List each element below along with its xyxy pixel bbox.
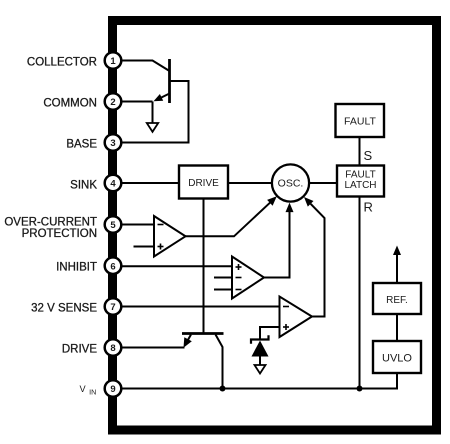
- junction dot FAULT LATCH line on VIN bus: [357, 386, 363, 392]
- pin label VIN: [80, 384, 97, 397]
- svg-text:BASE: BASE: [66, 138, 97, 150]
- stub U2 inverting input 2: [214, 289, 232, 291]
- wire FAULT LATCH R to VIN bus: [359, 197, 361, 389]
- wire U2 output to OSC with arrow: [264, 203, 294, 278]
- block UVLO: [373, 341, 421, 373]
- wire pin 6 to U2 non-inverting input: [122, 265, 232, 267]
- svg-text:REF.: REF.: [386, 295, 408, 306]
- comparator U2 inhibit: [232, 257, 264, 299]
- comparator U3 32V sense: [280, 297, 313, 338]
- svg-text:COLLECTOR: COLLECTOR: [27, 56, 97, 68]
- svg-text:FAULT: FAULT: [345, 170, 375, 181]
- block DRIVE: [179, 166, 228, 199]
- pin 4 (SINK): [105, 175, 122, 192]
- pin 6 (INHIBIT): [105, 257, 122, 274]
- wire FAULT to FAULT LATCH S input: [359, 137, 361, 166]
- oscillator OSC: [272, 164, 309, 201]
- wire U3 non-inverting input to zener D1: [260, 327, 280, 340]
- svg-text:LATCH: LATCH: [344, 180, 376, 191]
- svg-text:PROTECTION: PROTECTION: [22, 228, 97, 240]
- wire pin 8 to Q2 emitter: [122, 347, 185, 349]
- svg-text:SINK: SINK: [70, 179, 97, 191]
- wire U1 output to OSC with arrow: [186, 196, 277, 236]
- wire UVLO to VIN bus: [396, 373, 398, 390]
- svg-text:DRIVE: DRIVE: [188, 178, 219, 189]
- wire pin 4 to DRIVE block: [122, 182, 179, 184]
- svg-text:7: 7: [110, 302, 115, 313]
- block REF: [373, 283, 421, 314]
- pin 1 (COLLECTOR): [105, 52, 122, 69]
- comparator U1 over-current: [154, 216, 186, 257]
- pin 3 (BASE): [105, 134, 122, 151]
- svg-text:DRIVE: DRIVE: [62, 343, 97, 355]
- wire OSC to FAULT LATCH: [310, 182, 337, 184]
- pin 2 (COMMON): [105, 93, 122, 110]
- block FAULT LATCH: [337, 166, 384, 197]
- transistor Q1: [154, 59, 170, 103]
- substrate connection below Q1 emitter: [147, 102, 158, 132]
- stub U1 non-inverting input: [134, 246, 155, 248]
- svg-text:S: S: [364, 148, 373, 163]
- svg-text:IN: IN: [89, 388, 96, 397]
- wire REF to UVLO: [396, 314, 398, 341]
- wire VIN bus from pin 9: [122, 388, 397, 390]
- svg-text:R: R: [364, 199, 373, 214]
- wire pin 2 to Q1 emitter node: [122, 101, 153, 103]
- junction dot Q2 collector on VIN bus: [220, 386, 226, 392]
- svg-text:UVLO: UVLO: [382, 353, 412, 365]
- svg-text:8: 8: [110, 343, 115, 354]
- transistor Q2: [182, 334, 224, 389]
- svg-text:COMMON: COMMON: [43, 97, 97, 109]
- svg-text:2: 2: [110, 97, 115, 108]
- wire DRIVE block to Q2 base: [203, 199, 205, 334]
- svg-text:FAULT: FAULT: [344, 116, 376, 128]
- pin 9 (VIN): [105, 380, 122, 397]
- stub U2 inverting input 1: [214, 277, 232, 279]
- pin 8 (DRIVE): [105, 339, 122, 356]
- svg-text:3: 3: [110, 138, 115, 149]
- svg-text:V: V: [80, 384, 87, 394]
- svg-text:OSC.: OSC.: [278, 178, 304, 190]
- wire DRIVE to OSC: [228, 182, 272, 184]
- zener diode D1: [251, 335, 269, 365]
- svg-text:OVER-CURRENT: OVER-CURRENT: [4, 217, 97, 229]
- svg-text:9: 9: [110, 384, 115, 395]
- pin label OVER-CURRENT PROTECTION: [4, 217, 97, 240]
- wire pin 7 to U3 inverting input: [122, 306, 280, 308]
- block FAULT: [336, 104, 385, 137]
- svg-text:4: 4: [110, 179, 116, 190]
- wire pin 1 to Q1 collector: [122, 61, 170, 72]
- svg-text:INHIBIT: INHIBIT: [56, 261, 97, 273]
- wire U3 output to OSC with arrow: [304, 197, 325, 317]
- svg-text:32 V SENSE: 32 V SENSE: [31, 302, 97, 314]
- pin 7 (32 V SENSE): [105, 298, 122, 315]
- substrate symbol below D1: [255, 365, 266, 374]
- wire Q1 base to pin 3: [122, 81, 189, 143]
- svg-text:1: 1: [110, 56, 116, 67]
- svg-text:5: 5: [110, 220, 116, 231]
- IC package outline: [113, 21, 437, 431]
- pin 5 (OVER-CURRENT PROTECTION): [105, 216, 122, 233]
- wire REF output with up arrow: [393, 246, 401, 284]
- wire pin 5 to U1 inverting input: [122, 224, 154, 226]
- svg-text:6: 6: [110, 261, 115, 272]
